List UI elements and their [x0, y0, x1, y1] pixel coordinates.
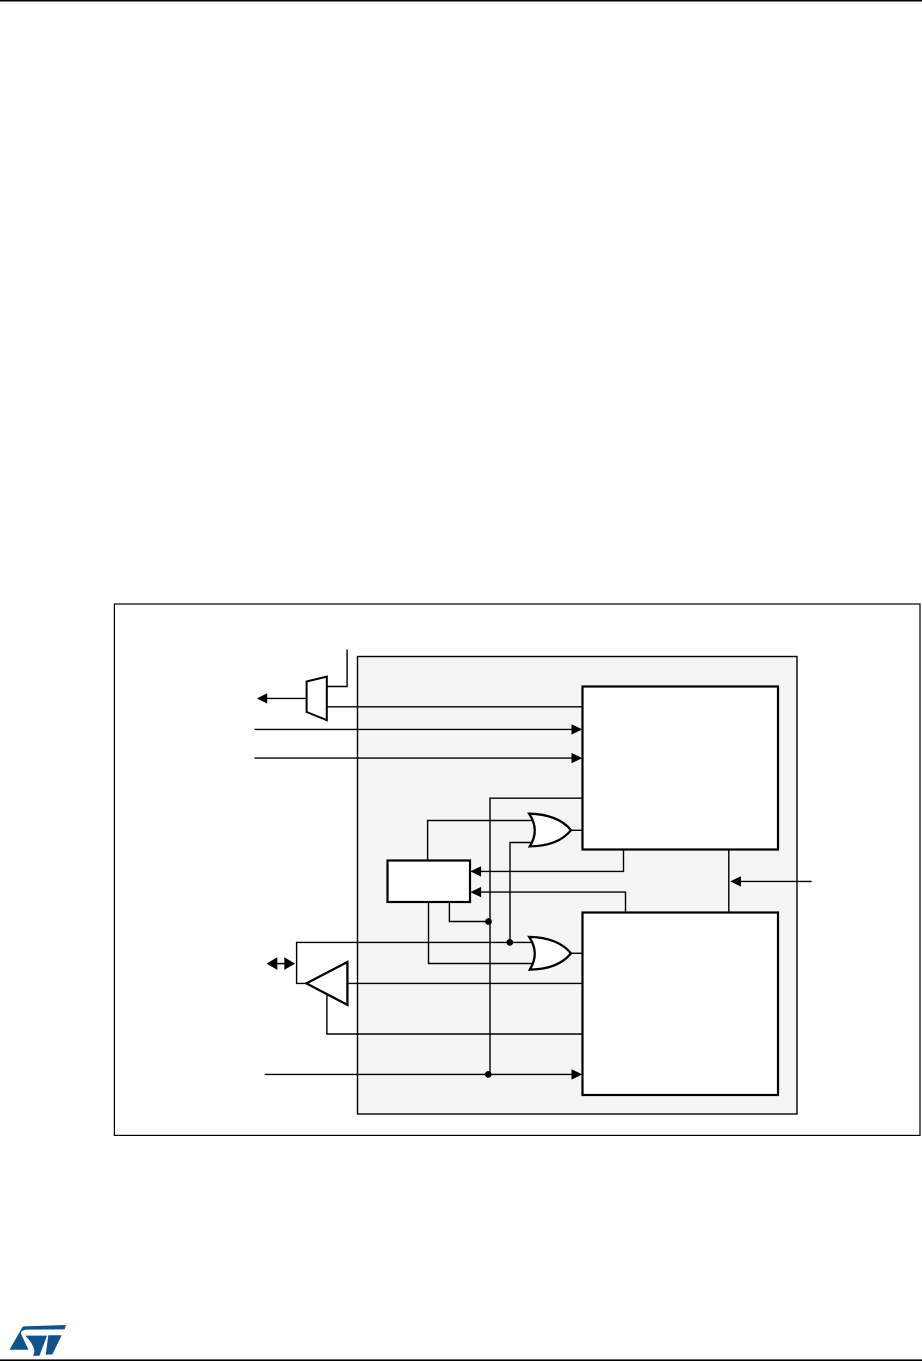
wire: block1 pin to long vertical bus	[490, 798, 583, 1074]
figure frame	[114, 604, 920, 1135]
wire: OR1 bottom input vertical	[510, 843, 532, 943]
arrowhead into block1 (line 1)	[572, 724, 583, 734]
wire: bottom input line to block2	[265, 1073, 573, 1075]
junction dot: buffer line / OR1 branch	[506, 939, 513, 946]
wire: OR2 output to block2	[571, 952, 583, 954]
bidirectional pad arrow	[267, 957, 295, 970]
wire: input line 2 to block1	[255, 757, 574, 759]
register (small box)	[388, 861, 471, 903]
arrowhead onto vertical bus	[730, 876, 741, 886]
header rule	[0, 0, 922, 2]
block1 (top right)	[583, 687, 779, 850]
wire: external bus input from right	[741, 880, 812, 882]
junction dot: bus / register wire	[485, 918, 492, 925]
chip boundary (gray area)	[358, 657, 798, 1115]
junction dot: bus / bottom input	[485, 1071, 492, 1078]
footer rule	[0, 1359, 922, 1361]
wire: OR1 output to block1	[571, 829, 583, 831]
wire: register bottom pin A to bus	[449, 902, 488, 922]
wire: input line 1 to block1	[255, 728, 574, 730]
arrowhead into register (input 2)	[470, 887, 481, 897]
wire: mux output to left	[266, 697, 307, 699]
wire: mux lower pin to block1	[327, 706, 583, 708]
pad buffer triangle	[306, 962, 347, 1005]
OR gate 2	[529, 937, 571, 970]
OR gate 1	[529, 814, 571, 847]
mux trapezoid	[307, 677, 327, 721]
wire: block1 to block2 vertical	[728, 850, 730, 913]
ST logo	[10, 1325, 66, 1356]
arrowhead into block2 (bottom input)	[572, 1069, 583, 1079]
wire: register bottom pin B to OR2	[429, 902, 532, 964]
arrowhead into register (input 1)	[470, 866, 481, 876]
wire: pad buffer output to OR gates	[297, 942, 532, 983]
wire: stub into mux select	[327, 650, 347, 687]
arrowhead into block1 (line 2)	[572, 753, 583, 763]
wire: register input 2 from block2 top	[480, 892, 626, 912]
wire: block1 bottom to register input 1	[480, 850, 624, 872]
wire: block2 to pad buffer input	[347, 982, 582, 984]
arrowhead left (mux output)	[257, 693, 267, 703]
wire: OR1 top input from register top	[428, 821, 532, 861]
wire: buffer enable from block2	[327, 994, 583, 1034]
block2 (bottom right)	[583, 913, 779, 1096]
